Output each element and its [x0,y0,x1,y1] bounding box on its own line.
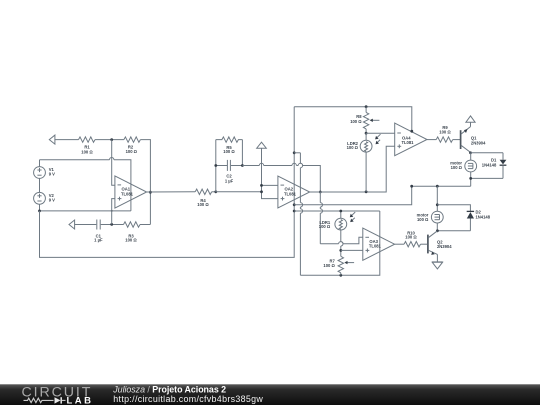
wire D1 bottom to motor1 [471,177,503,179]
wire OA2 output [310,191,321,193]
wire C1 to node B [101,224,124,226]
svg-text:1 µF: 1 µF [225,178,234,183]
wire OA1 plus input down to node B [112,199,115,225]
wire P1 to R1 [55,139,79,141]
wire R10 to Q2 base [421,243,428,245]
wire node A down to OA1 minus [112,140,115,186]
op-amp marks OA4 [397,133,414,148]
R8 bottom junction [365,132,368,135]
svg-text:1 µF: 1 µF [94,238,103,243]
op-amp marks OA1 [118,185,134,201]
port P2 (left flag at C1) [69,220,75,229]
svg-text:TL081: TL081 [284,192,297,197]
svg-text:TL081: TL081 [402,140,415,145]
motor M1 [450,153,476,186]
svg-text:100 Ω: 100 Ω [197,202,209,207]
C2 node junctions [214,164,217,167]
svg-text:http://circuitlab.com/cfvb4brs: http://circuitlab.com/cfvb4brs385gw [113,394,263,404]
wire R1 to node A [95,139,124,141]
resistor R4 [195,189,212,207]
resistor R5 [216,137,243,154]
resistor R7 (rheostat) [323,256,354,275]
dot on OA4 edge [410,130,413,133]
R8 top junction [365,105,368,108]
svg-text:D1: D1 [491,157,497,162]
wire A (294 to OA4+ net) [294,186,412,205]
CircuitLab logo [22,384,94,405]
op-amp OA2 [278,176,310,208]
resistor R8 (rheostat) [350,107,379,134]
transistor Q2 [428,231,452,262]
svg-text:9 V: 9 V [49,172,55,177]
wire R9 to Q1 base [453,139,460,141]
wire V2- down and right to x294 [40,107,295,258]
svg-text:LAB: LAB [67,395,94,405]
svg-text:100 Ω: 100 Ω [319,224,331,229]
svg-text:100 Ω: 100 Ω [81,149,93,154]
resistor R9 [436,125,453,142]
svg-text:1N4148: 1N4148 [476,215,491,220]
voltage source V2 [34,192,56,204]
wire OA2 output to OA4 plus path [320,146,394,192]
svg-text:100 Ω: 100 Ω [347,145,359,150]
LDR2 bottom junction [365,190,368,193]
svg-text:1N4148: 1N4148 [482,163,497,168]
wire V1 top detour [40,158,131,211]
resistor R10 [404,231,421,247]
wire node C to port stem [216,191,262,193]
node C junction [214,190,217,193]
wire motor2 top to D2 [437,205,470,212]
OA2 output junction [319,191,322,194]
port P3 (up flag above OA2) [257,142,267,148]
wire V2 minus rail (left) [40,210,131,212]
resistor R2 [124,137,140,154]
bottom wire of lower box [300,211,379,275]
op-amp OA4 [395,123,427,156]
wire OA4 plus / output row [427,139,436,141]
port P1 (left input flag) [49,135,55,144]
wire D2 bottom to Q2 collector [437,230,470,232]
wire R5 right side down [241,140,243,166]
node V2- junction [38,210,41,213]
LDR1 top junction [339,210,342,213]
op-amp OA3 [363,228,395,260]
wire x437 down to motor2 [436,186,438,211]
svg-text:2N3904: 2N3904 [471,140,486,145]
resistor R1 [79,137,96,155]
ground under Q2 [432,262,443,269]
wire R3 to feedback corner [140,224,150,226]
svg-text:100 Ω: 100 Ω [405,234,417,239]
port P4 (up flag above Q1) [466,116,475,127]
wire Q1 collector to D1 [471,152,504,154]
wire V1 to V2 [39,178,41,192]
voltage source V1 [34,160,56,179]
svg-text:100 Ω: 100 Ω [126,149,138,154]
svg-text:100 Ω: 100 Ω [417,217,429,222]
LDR1 [319,211,355,230]
motor M2 [417,211,444,231]
svg-text:TL081: TL081 [369,244,382,249]
footer bar [0,384,540,405]
R7 bottom junction [339,274,342,277]
svg-text:100 Ω: 100 Ω [350,119,362,124]
diode D2 [467,210,491,231]
wire to OA3 plus [341,249,363,251]
left vertical x294 junction dots [293,151,296,154]
node B junction (C1/R3/+in) [110,223,113,226]
svg-text:100 Ω: 100 Ω [223,149,235,154]
motor1 bottom junction [469,177,472,180]
wire y186 row [412,185,471,187]
svg-text:100 Ω: 100 Ω [125,238,137,243]
wire OA3 output to R10 [395,243,404,245]
op-amp OA1 [115,176,147,208]
wire node C up to R5/C2 [215,140,217,192]
wire OA2 output down to OA3 (with hops) [320,192,363,244]
op-amp marks OA2 [281,185,297,200]
capacitor C1 [94,220,103,243]
svg-text:TL081: TL081 [121,192,134,197]
svg-text:100 Ω: 100 Ω [439,130,451,135]
top feedback wire [294,107,412,132]
OA2 minus stub [262,184,278,186]
capacitor C2 [216,160,243,184]
wire R4 to node C [212,191,216,193]
svg-text:9 V: 9 V [49,197,55,202]
wire R2 to feedback corner [140,140,150,225]
port P3 stem down to OA2 inputs [262,148,278,198]
OA1 output junction [149,191,152,194]
wire OA1 output to R4 [147,191,196,193]
svg-text:2N3904: 2N3904 [437,244,452,249]
Q1 collector junction [469,151,472,154]
transistor Q1 [461,127,487,153]
node A junction [110,138,113,141]
resistor R3 [124,222,141,243]
wire V2 bottom stub [39,204,41,211]
wire R8 junction to OA4 minus [366,132,395,134]
wire P2 to C1 [75,224,97,226]
diode D1 [482,153,507,179]
OA3 plus junction [339,249,342,252]
footer text [112,384,263,404]
junction dots on stem [260,184,263,187]
wire B rail segment [294,210,380,212]
LDR2 [347,133,381,192]
LDR1 bottom wire with hop [341,230,343,256]
op-amp marks OA3 [365,237,381,252]
svg-text:100 Ω: 100 Ω [451,165,463,170]
wire C2 to OA2 output corner (with hops) [242,163,320,192]
svg-text:100 Ω: 100 Ω [323,263,335,268]
svg-text:Juliosza / Projeto Acionas 2: Juliosza / Projeto Acionas 2 [112,384,226,394]
wire x294 to x300 branch [294,152,300,154]
vertical x300 down (with hops) [300,153,302,275]
